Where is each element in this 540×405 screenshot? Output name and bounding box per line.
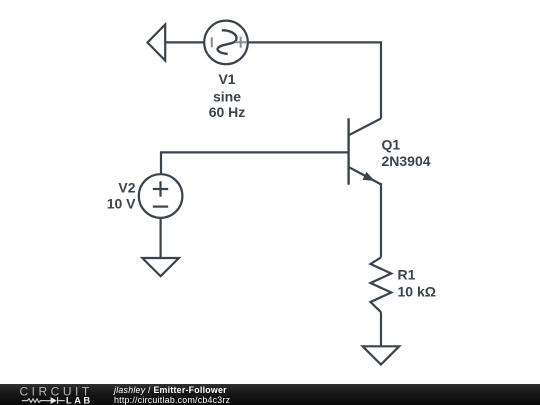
- wire flag to V1: [165, 41, 204, 43]
- svg-text:2N3904: 2N3904: [382, 153, 431, 169]
- AC source V1: [204, 21, 248, 65]
- label V1 value: [209, 71, 246, 120]
- label R1 value: [398, 267, 436, 300]
- DC source V2: [139, 174, 183, 218]
- wire V2 to ground: [160, 218, 162, 258]
- resistor R1: [371, 257, 392, 312]
- wire base to V2: [161, 152, 349, 174]
- svg-text:V2: V2: [118, 180, 135, 196]
- wire R1 to ground: [380, 312, 382, 346]
- svg-text:10 kΩ: 10 kΩ: [398, 284, 436, 300]
- svg-text:Q1: Q1: [382, 136, 401, 152]
- wire emitter to R1: [380, 183, 382, 257]
- label Q1 value: [382, 136, 431, 169]
- svg-text:R1: R1: [398, 267, 416, 283]
- svg-text:sine: sine: [213, 89, 241, 105]
- label V2 value: [107, 180, 136, 212]
- svg-text:60 Hz: 60 Hz: [209, 104, 246, 120]
- svg-text:LAB: LAB: [66, 396, 93, 405]
- footer attribution text: [114, 385, 230, 405]
- svg-text:V1: V1: [218, 71, 235, 87]
- svg-text:10 V: 10 V: [107, 195, 136, 211]
- input terminal flag: [148, 25, 166, 61]
- transistor Q1: [349, 118, 381, 184]
- ground under R1: [363, 346, 400, 364]
- ground under V2: [142, 258, 179, 276]
- CircuitLab logo: [0, 384, 110, 405]
- footer bar: [0, 384, 540, 405]
- wire V1 to collector corner: [248, 42, 381, 118]
